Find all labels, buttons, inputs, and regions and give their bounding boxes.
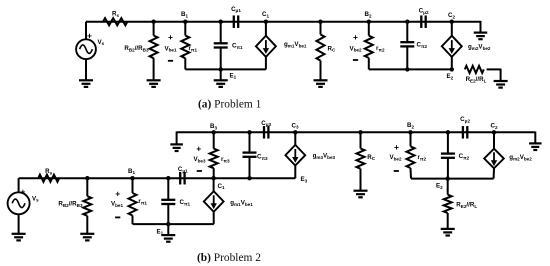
resistor RE2//RL (b) <box>444 195 452 213</box>
wire: C2 to diamond <box>451 22 453 36</box>
node: Cpi3 top junction (b) <box>247 130 251 134</box>
wire: E1 rail to ground <box>220 69 222 80</box>
node B3 (b) <box>212 130 216 134</box>
label C1 (b) <box>218 183 225 190</box>
wire: Cpi3 bottom lead <box>249 157 251 178</box>
ground below Rc (a) <box>314 80 328 87</box>
wire: gm2 diamond to E2 rail <box>493 168 495 178</box>
label gm1Vbe1 (b) <box>230 200 253 207</box>
resistor rpi2 (b) <box>407 146 415 168</box>
label RB2//RB3 (b) <box>58 201 83 208</box>
caption (a) Problem 1 <box>198 98 262 110</box>
current source gm1Vbe1 (b) <box>204 191 224 212</box>
wire: C2-b to gm2 diamond <box>493 132 495 149</box>
node E1 (b) <box>166 222 170 226</box>
resistor Rc (b) <box>357 149 365 169</box>
label minus of Vbe3 (b) <box>197 170 202 172</box>
wire: circuit-b E1 rail <box>133 223 214 225</box>
capacitor Cmu2 (b) <box>463 126 467 139</box>
node C1 (b) <box>211 176 215 180</box>
node B1 (b) <box>130 176 134 180</box>
label C3 (b) <box>291 122 298 129</box>
wire: Cpi2-b top lead <box>447 132 449 153</box>
label + of Vs (a) <box>87 30 92 40</box>
svg-text:+: + <box>115 188 120 198</box>
wire: rpi2-b to E2 rail <box>410 168 413 179</box>
wire: circuit-a bottom rail E2 <box>369 68 452 70</box>
svg-text:+: + <box>353 32 358 42</box>
ground below RE2//RL (a) <box>494 81 508 88</box>
source Vs (a) <box>76 39 96 59</box>
wire: junction to RB2//RB3 (b) <box>86 178 88 196</box>
ground top-right (a) <box>474 33 488 40</box>
label E2 (b) <box>436 183 443 190</box>
wire: rpi1 to bottom rail <box>184 58 186 69</box>
wire: Rc top lead <box>320 22 322 35</box>
node: Rc top junction (b) <box>358 130 362 134</box>
capacitor Cpi2 (b) <box>441 154 455 158</box>
wire: RB2//RB3-b to ground <box>86 216 88 234</box>
ground top-right (b) <box>529 143 542 150</box>
label minus of Vbe1 (a) <box>168 60 173 62</box>
svg-text:+: + <box>196 143 201 153</box>
current source gm1Vbe1 (a) <box>256 36 276 57</box>
svg-text:(b) Problem 2: (b) Problem 2 <box>197 252 261 264</box>
wire: B3 rail right drop (b) <box>534 132 536 144</box>
label gm3Vbe3 (b) <box>313 153 336 160</box>
wire: E2 to RE2//RL (b) <box>447 179 449 195</box>
svg-text:RE2//RL: RE2//RL <box>466 76 487 83</box>
node: Rs/RB junction (b) <box>85 176 89 180</box>
wire: Cpi1 bottom lead <box>220 48 222 70</box>
wire: Vs to ground <box>85 59 87 80</box>
node: Cpi2 top junction (b) <box>446 130 450 134</box>
wire: Cpi2 bottom lead <box>406 46 408 69</box>
ground below RB2//RB3 (b) <box>80 234 94 241</box>
resistor rpi1 (b) <box>129 193 137 216</box>
source Vs (b) <box>8 192 30 214</box>
label + of Vbe2 (a) <box>353 32 358 42</box>
label rpi3 (b) <box>221 156 230 163</box>
node C2 (b) <box>492 130 496 134</box>
label RB2//RB3 (a) <box>124 45 149 52</box>
node: Cpi1 top junction (a) <box>219 20 223 24</box>
wire: gm1 diamond to E1 rail (b) <box>213 212 215 224</box>
wire: junction down to RB2//RB3 <box>153 22 155 36</box>
wire: gm3 diamond to E3 <box>294 166 296 179</box>
resistor rpi2 (a) <box>365 36 373 58</box>
label Cpi1 (b) <box>180 199 191 206</box>
wire: B3 down to rpi3 <box>213 132 215 148</box>
wire: Rc to ground <box>320 61 322 81</box>
label + of Vbe2 (b) <box>394 142 399 152</box>
label Vs (b) <box>32 195 39 202</box>
wire: top-right drop to ground (a) <box>480 21 482 33</box>
resistor rpi3 (b) <box>210 149 218 169</box>
capacitor Cpi1 (b) <box>161 200 175 204</box>
node: Cpi2 bottom junction (a) <box>405 67 409 71</box>
wire: circuit-a bottom rail E1 <box>185 68 266 70</box>
label Rs (b) <box>45 168 52 175</box>
wire: circuit-b stage1 rail <box>19 177 296 179</box>
label B2 (a) <box>364 11 371 18</box>
caption (b) Problem 2 <box>197 252 261 264</box>
label minus of Vbe2 (a) <box>353 59 358 61</box>
ground below Rc (b) <box>354 191 368 198</box>
wire: rpi2 to bottom rail 2 <box>368 58 370 70</box>
wire: B3 rail left drop <box>176 132 178 145</box>
wire: Cpi1-b bottom lead <box>167 204 169 224</box>
node C1 (a) <box>264 20 268 24</box>
node: Rc top junction (a) <box>318 20 322 24</box>
capacitor Cpi1 (a) <box>214 43 228 47</box>
node: Cpi2 top junction (a) <box>405 20 409 24</box>
label rpi1 (a) <box>189 45 198 52</box>
label rpi1 (b) <box>138 198 147 205</box>
label Rs (a) <box>112 11 119 18</box>
capacitor Cpi2 (a) <box>400 42 414 46</box>
label Vs (a) <box>98 39 105 46</box>
svg-text:+: + <box>20 186 25 196</box>
wire: rpi3 to C1 <box>213 168 215 178</box>
label rpi2 (b) <box>418 154 427 161</box>
wire: diamond to bottom rail <box>265 57 267 70</box>
resistor Rs (b) <box>38 175 59 182</box>
label Vbe1 (b) <box>111 201 124 208</box>
label Vbe2 (a) <box>349 45 362 52</box>
label minus of Vbe1 (b) <box>115 216 120 218</box>
wire: RB2//RB3 to ground <box>153 58 155 80</box>
wire: C1 to gm1 diamond (b) <box>213 178 215 191</box>
node C2 (a) <box>450 20 454 24</box>
label B3 (b) <box>210 123 217 130</box>
label E1 (a) <box>230 72 237 79</box>
wire: circuit-a top rail <box>86 21 481 23</box>
label + of Vs (b) <box>20 186 25 196</box>
node: Cpi3 bottom junction (b) <box>247 176 251 180</box>
wire: RE2//RL-b to ground <box>447 213 449 229</box>
svg-text:(a) Problem 1: (a) Problem 1 <box>198 98 262 110</box>
label gm2Vbe2 (b) <box>509 154 532 161</box>
ground below RE2//RL (b) <box>441 229 455 236</box>
wire: Cpi2 top lead <box>406 22 408 43</box>
resistor RE2//RL (a) <box>465 66 484 73</box>
label Rc (b) <box>367 154 375 161</box>
capacitor Cmu3 (b) <box>264 126 268 139</box>
node B1 (a) <box>183 20 187 24</box>
wire: B1-b down to rpi1 <box>132 178 134 193</box>
label RE2//RL (a) <box>466 76 487 83</box>
svg-text:RE2//RL: RE2//RL <box>456 202 477 209</box>
svg-text:+: + <box>394 142 399 152</box>
capacitor Cmu1 (a) <box>234 15 238 28</box>
label + of Vbe1 (a) <box>168 32 173 42</box>
wire: Vs to top rail <box>85 22 87 40</box>
resistor Rs (a) <box>103 18 127 25</box>
label + of Vbe1 (b) <box>115 188 120 198</box>
label gm2Vbe2 (a) <box>468 44 491 51</box>
label Cmu2 (a) <box>419 8 429 15</box>
resistor RB2//RB3 (b) <box>83 196 91 216</box>
wire: Rc-b top lead <box>360 132 362 148</box>
wire: B2-b down to rpi2 <box>410 132 412 146</box>
wire: B1 down to rpi1 <box>184 22 186 36</box>
label Vbe3 (b) <box>193 156 206 163</box>
label C1 (a) <box>262 11 269 18</box>
label B1 (b) <box>128 168 135 175</box>
node E2 (b) <box>446 176 450 180</box>
svg-text:+: + <box>87 30 92 40</box>
label B1 (a) <box>181 11 188 18</box>
ground at B3 rail left (b) <box>170 144 183 151</box>
label Cmu1 (b) <box>178 166 188 173</box>
wire: diamond2 to E2 <box>451 57 453 70</box>
label Rc (a) <box>328 45 336 52</box>
node C3 (b) <box>293 130 297 134</box>
label Cmu3 (b) <box>261 120 271 127</box>
label Cpi2 (a) <box>417 42 428 49</box>
label E3 (b) <box>301 176 308 183</box>
node B2 (b) <box>408 130 412 134</box>
capacitor Cmu1 (b) <box>180 172 184 185</box>
label C2 (a) <box>448 12 455 19</box>
label Cmu1 (a) <box>231 6 241 13</box>
ground below RB2//RB3 (a) <box>147 80 161 87</box>
ground at E1 (a) <box>214 80 228 87</box>
ground at E1 (b) <box>161 235 175 242</box>
node B2 (a) <box>367 20 371 24</box>
node: Rs/RB junction (a) <box>151 20 155 24</box>
label rpi2 (a) <box>376 45 385 52</box>
wire: circuit-b B3 rail <box>177 131 536 133</box>
resistor RB2//RB3 (a) <box>150 36 158 59</box>
ground below Vs (b) <box>12 234 26 241</box>
wire: Cpi2-b bottom lead <box>447 158 449 179</box>
capacitor Cpi3 (b) <box>243 153 257 157</box>
wire: B2 down to rpi2 <box>368 22 370 36</box>
wire: Rc-b to ground <box>360 169 362 191</box>
label minus of Vbe2 (b) <box>394 170 399 172</box>
node: Cpi1 bottom junction (a) <box>219 67 223 71</box>
label RE2//RL (b) <box>456 202 477 209</box>
label Cpi2 (b) <box>459 153 470 160</box>
label C2 (b) <box>490 123 497 130</box>
label E1 (b) <box>157 228 164 235</box>
wire: C3 to gm3 diamond <box>294 132 296 145</box>
wire: C1 to diamond <box>265 22 267 36</box>
resistor rpi1 (a) <box>181 36 189 59</box>
node E2 (a) <box>450 67 454 71</box>
wire: Cpi1-b top lead <box>167 178 169 200</box>
label Cmu2 (b) <box>460 116 470 123</box>
label + of Vbe3 (b) <box>196 143 201 153</box>
wire: RE2//RL to ground corner <box>487 69 501 81</box>
ground below Vs (a) <box>79 80 93 87</box>
wire: E1-b to ground <box>167 224 169 235</box>
resistor Rc (a) <box>317 35 325 61</box>
wire: Cpi3 top lead <box>249 132 251 152</box>
wire: rpi1-b to E1 rail <box>132 216 134 225</box>
wire: Cpi1 top lead <box>220 22 222 44</box>
current source gm2Vbe2 (b) <box>484 149 504 169</box>
label Vbe2 (b) <box>389 154 402 161</box>
wire: Vs-b to rail <box>18 178 20 192</box>
node: Cpi1 top junction (b) <box>166 176 170 180</box>
label B2 (b) <box>407 122 414 129</box>
capacitor Cmu2 (a) <box>421 15 425 28</box>
current source gm2Vbe2 (a) <box>442 36 462 57</box>
label Cpi1 (a) <box>232 43 243 50</box>
svg-text:+: + <box>168 32 173 42</box>
label gm1Vbe1 (a) <box>284 41 307 48</box>
label Cpi3 (b) <box>257 154 268 161</box>
wire: circuit-b E2 rail <box>411 178 494 180</box>
current source gm3Vbe3 (b) <box>285 145 305 166</box>
label E2 (a) <box>447 73 454 80</box>
wire: Vs-b to ground <box>18 214 20 234</box>
label Vbe1 (a) <box>164 45 177 52</box>
